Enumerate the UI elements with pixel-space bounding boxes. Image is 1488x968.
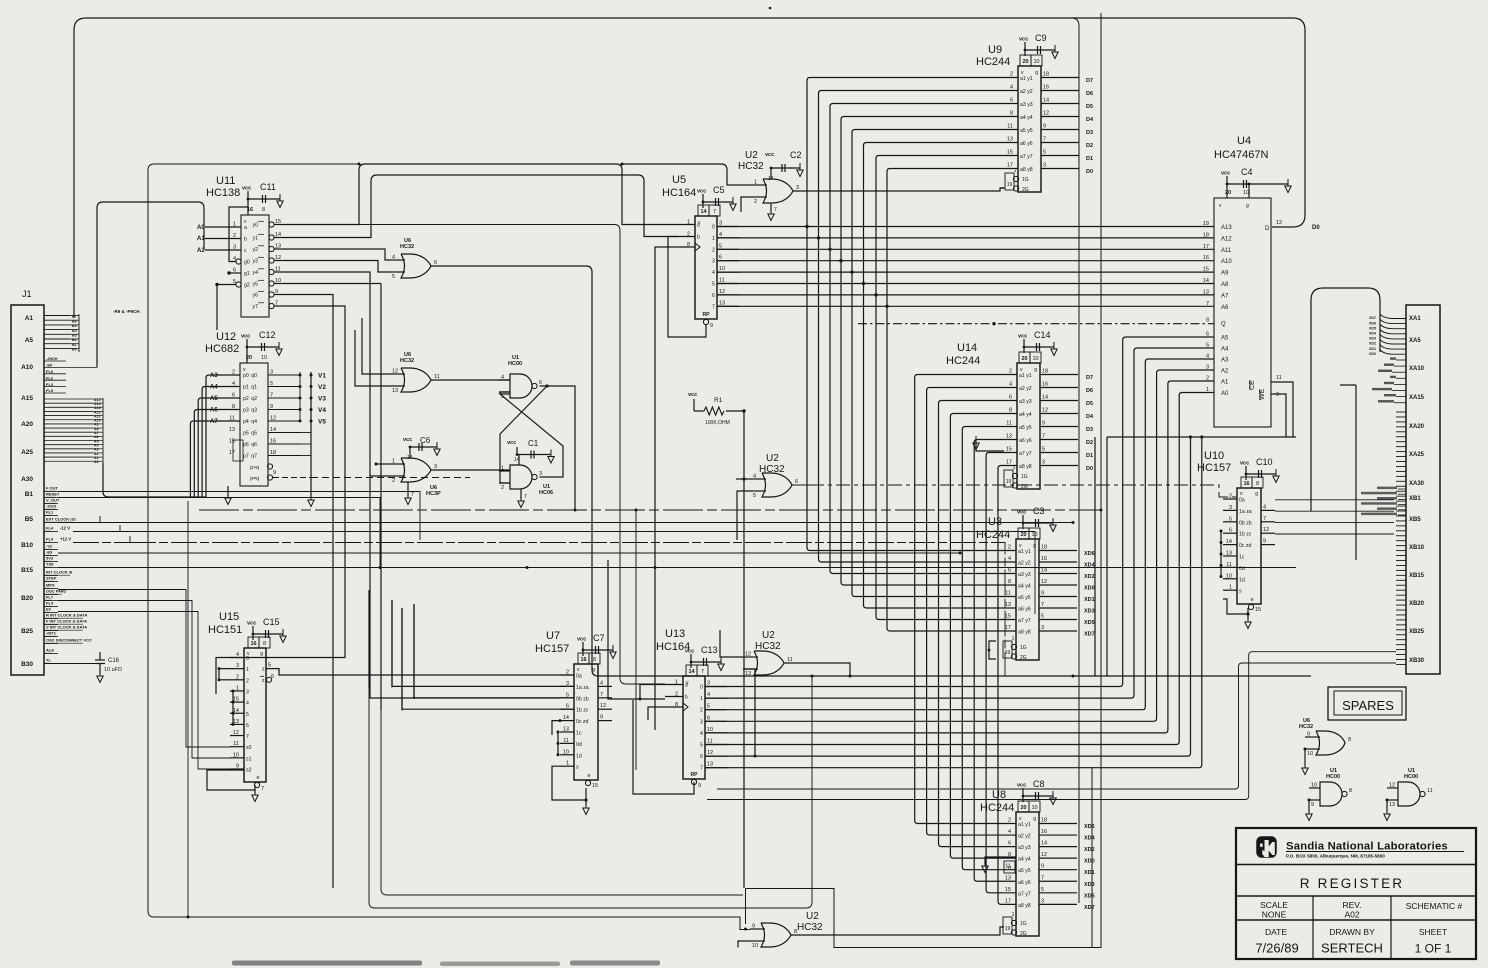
svg-text:A5: A5: [210, 396, 218, 402]
svg-text:12: 12: [600, 703, 606, 709]
wire long vertical bus x=1101: [746, 13, 1102, 948]
wire U2A output to U9 enable: [793, 188, 1004, 191]
svg-text:1: 1: [700, 696, 703, 702]
svg-text:a6 y6: a6 y6: [1018, 607, 1031, 613]
wire bus row 510: [199, 509, 1103, 512]
svg-text:XD1: XD1: [1369, 347, 1376, 351]
svg-text:A4: A4: [1221, 347, 1229, 353]
svg-text:A10: A10: [1221, 259, 1232, 265]
svg-text:12: 12: [1041, 579, 1047, 585]
wire XA small signal stubs: [1372, 357, 1406, 402]
svg-text:8: 8: [263, 641, 266, 647]
svg-text:1c: 1c: [576, 731, 582, 737]
IC U13 HC164 with capacitor C13: [656, 628, 727, 789]
svg-text:A7: A7: [210, 419, 218, 425]
svg-text:13: 13: [1389, 802, 1395, 808]
svg-text:A6: A6: [1221, 305, 1229, 311]
svg-text:a7 y7: a7 y7: [1018, 891, 1031, 897]
svg-text:16: 16: [1042, 382, 1048, 388]
wire left rail x=148 to bottom: [148, 164, 750, 930]
svg-text:HC244: HC244: [980, 802, 1014, 814]
svg-text:g: g: [1246, 203, 1249, 209]
svg-text:HC244: HC244: [976, 56, 1010, 68]
wire XA data fan XD7-XD0: [1369, 314, 1406, 356]
wire vertical x=1092: [1091, 768, 1093, 948]
wire connector pin ladder: [1396, 412, 1406, 664]
svg-text:10: 10: [1243, 190, 1249, 196]
svg-text:V5: V5: [318, 419, 326, 426]
svg-text:U3: U3: [988, 516, 1002, 528]
svg-text:D7: D7: [1086, 78, 1093, 84]
svg-text:vcc: vcc: [403, 437, 412, 443]
svg-text:U5: U5: [672, 174, 686, 186]
svg-text:p=q: p=q: [250, 476, 259, 482]
svg-text:C4: C4: [1241, 167, 1253, 177]
svg-text:y0: y0: [253, 223, 259, 229]
svg-text:FL7: FL7: [46, 595, 54, 600]
svg-text:10: 10: [707, 727, 713, 733]
label U3 outputs XD: [1084, 551, 1096, 638]
wire U2D output to U8 enable: [791, 927, 1004, 935]
svg-text:12: 12: [1389, 783, 1395, 789]
svg-text:XD1: XD1: [1084, 870, 1095, 876]
svg-text:13: 13: [1005, 602, 1011, 608]
svg-text:4: 4: [1008, 556, 1011, 562]
svg-text:U13: U13: [665, 628, 685, 640]
wire bus +12V row: [73, 536, 1005, 676]
svg-text:SHEET: SHEET: [1419, 927, 1447, 937]
svg-text:HC06: HC06: [539, 490, 553, 496]
OR gate U6 HC3P (third): [390, 446, 441, 497]
svg-text:U9: U9: [988, 44, 1002, 56]
svg-text:a5 y5: a5 y5: [1019, 425, 1032, 431]
svg-text:6: 6: [1008, 568, 1011, 574]
svg-text:vcc: vcc: [1240, 461, 1249, 467]
svg-text:XD7: XD7: [1084, 905, 1095, 911]
svg-text:6: 6: [700, 754, 703, 760]
svg-text:2: 2: [1010, 72, 1013, 78]
svg-text:y1: y1: [253, 236, 259, 242]
wire right vertical pair: [1095, 437, 1107, 676]
svg-text:vcc: vcc: [247, 621, 256, 627]
wire XB small signal stubs: [1361, 487, 1406, 515]
wire U10 outputs to connector: [1275, 500, 1394, 534]
svg-text:5: 5: [712, 282, 715, 288]
svg-text:1G: 1G: [1020, 921, 1027, 927]
wire long vertical bus x=1079: [1073, 18, 1079, 903]
svg-text:U15: U15: [219, 611, 239, 623]
svg-text:HC244: HC244: [946, 355, 980, 367]
svg-text:17: 17: [229, 450, 235, 456]
capacitor C1: [507, 439, 554, 465]
svg-text:9: 9: [698, 783, 701, 789]
svg-text:FL0: FL0: [46, 369, 54, 374]
svg-text:19: 19: [1007, 182, 1013, 188]
svg-text:a8 y8: a8 y8: [1020, 167, 1033, 173]
svg-text:XD1: XD1: [1084, 597, 1095, 603]
wire U11 y4 vertical: [283, 272, 560, 698]
svg-text:s: s: [576, 765, 579, 771]
svg-text:18: 18: [1041, 545, 1047, 551]
NAND U1 HC00 (upper): [499, 355, 542, 400]
svg-text:4: 4: [392, 255, 395, 261]
svg-text:HC00: HC00: [1326, 774, 1340, 780]
svg-text:FL5: FL5: [46, 388, 54, 393]
svg-text:A10: A10: [21, 364, 33, 371]
svg-text:C13: C13: [701, 645, 718, 655]
svg-text:D0: D0: [1086, 466, 1093, 472]
svg-text:D3: D3: [1086, 130, 1093, 136]
svg-text:a6 y6: a6 y6: [1020, 141, 1033, 147]
svg-text:2: 2: [246, 678, 249, 684]
wire U11 y5 vertical: [283, 283, 381, 285]
wire bus row 553: [58, 552, 962, 555]
svg-text:a: a: [244, 225, 247, 231]
wire J1 B-section signal stubs: [44, 486, 92, 664]
svg-text:3: 3: [712, 259, 715, 265]
svg-text:15: 15: [1005, 614, 1011, 620]
svg-text:9: 9: [1041, 864, 1044, 870]
svg-text:STEP: STEP: [46, 576, 57, 581]
svg-text:a6 y6: a6 y6: [1019, 438, 1032, 444]
wire U5 pin1 from U11 y0: [283, 163, 677, 225]
svg-text:C11: C11: [260, 182, 276, 192]
wire A riser foot: [66, 366, 97, 368]
IC U5 HC164 with capacitor C5: [662, 174, 739, 329]
title fields row 1: [1260, 900, 1462, 920]
svg-text:a2 y2: a2 y2: [1018, 561, 1031, 567]
svg-text:15: 15: [229, 439, 235, 445]
svg-text:D: D: [1265, 226, 1270, 232]
wire U11 y0 branch down to U13: [359, 225, 665, 685]
svg-text:EXT CLOCK /32: EXT CLOCK /32: [46, 517, 77, 522]
svg-text:6: 6: [1008, 841, 1011, 847]
capacitor C16: [44, 652, 122, 683]
svg-text:g: g: [1035, 70, 1038, 76]
svg-text:XD7: XD7: [1084, 632, 1095, 638]
svg-text:4: 4: [707, 692, 710, 698]
svg-text:XD6: XD6: [1084, 551, 1095, 557]
svg-text:HC32: HC32: [1299, 724, 1313, 730]
svg-text:XB30: XB30: [1409, 658, 1425, 664]
svg-text:13: 13: [1007, 137, 1013, 143]
svg-text:13: 13: [229, 427, 235, 433]
svg-text:10: 10: [1033, 59, 1039, 65]
svg-text:MPX: MPX: [46, 583, 55, 588]
wire U1 lower gnd: [518, 489, 527, 508]
svg-text:3: 3: [1041, 625, 1044, 631]
svg-text:9: 9: [752, 924, 755, 930]
svg-text:XD2: XD2: [1369, 342, 1376, 346]
svg-text:4: 4: [712, 270, 715, 276]
svg-text:B1: B1: [25, 491, 34, 498]
svg-text:vcc: vcc: [765, 152, 774, 158]
svg-text:F INT CLOCK & DATA: F INT CLOCK & DATA: [46, 619, 87, 624]
wire mid vertical x=636: [635, 509, 638, 771]
svg-text:8: 8: [1009, 408, 1012, 414]
svg-text:9: 9: [1043, 124, 1046, 130]
svg-text:D5: D5: [1086, 401, 1093, 407]
svg-text:C8: C8: [1033, 779, 1045, 789]
wire Q bus dash: [858, 323, 1214, 325]
svg-text:FL3: FL3: [46, 382, 54, 387]
wire U1 cross coupling: [500, 386, 563, 483]
svg-text:9: 9: [1041, 591, 1044, 597]
svg-text:7: 7: [701, 669, 704, 675]
svg-text:2: 2: [1009, 369, 1012, 375]
svg-text:B15: B15: [21, 567, 33, 574]
svg-text:XD2: XD2: [1084, 574, 1095, 580]
svg-text:XD3: XD3: [1084, 609, 1095, 615]
svg-text:14: 14: [700, 209, 707, 215]
svg-text:FL4: FL4: [46, 537, 54, 542]
svg-text:HC682: HC682: [205, 343, 239, 355]
svg-text:XB15: XB15: [1409, 573, 1425, 579]
wire U7 select group: [552, 719, 562, 756]
svg-text:vcc: vcc: [1221, 171, 1230, 177]
svg-text:8: 8: [1008, 579, 1011, 585]
svg-text:XD0: XD0: [1084, 859, 1095, 865]
svg-text:XD4: XD4: [1369, 332, 1376, 336]
svg-text:7: 7: [1041, 875, 1044, 881]
svg-text:16: 16: [250, 641, 256, 647]
connector J1: [11, 289, 44, 675]
svg-text:C16: C16: [108, 658, 120, 664]
svg-text:s: s: [1239, 589, 1242, 595]
svg-text:7: 7: [524, 494, 527, 500]
svg-text:D2: D2: [1086, 440, 1093, 446]
wire U11 input taps A0 A1 A2: [197, 225, 241, 254]
wire U7 strobe ground: [552, 766, 589, 814]
label U9 outputs D7-D0: [1086, 78, 1094, 175]
svg-text:C15: C15: [263, 617, 280, 627]
svg-text:NONE: NONE: [1262, 910, 1287, 920]
svg-text:XD4: XD4: [1084, 836, 1096, 842]
svg-text:e: e: [256, 775, 259, 781]
svg-text:12: 12: [1041, 852, 1047, 858]
svg-text:7: 7: [700, 766, 703, 772]
svg-text:XD7: XD7: [1369, 316, 1376, 320]
svg-text:HC138: HC138: [206, 187, 240, 199]
wire ladder riser: [1340, 385, 1356, 560]
wire U14 enable gnd stub: [973, 436, 1004, 451]
svg-text:REV.: REV.: [1342, 900, 1361, 910]
svg-text:4: 4: [753, 474, 756, 480]
svg-text:A9: A9: [1221, 271, 1229, 277]
svg-text:13: 13: [1005, 875, 1011, 881]
svg-text:5: 5: [707, 704, 710, 710]
wire U7 inputs from mid verticals: [392, 600, 574, 709]
svg-text:12: 12: [392, 369, 398, 375]
svg-text:-EF: -EF: [46, 363, 53, 368]
wire U4 pin 11: [1271, 382, 1293, 437]
SPARES box: [1328, 687, 1406, 720]
svg-text:4: 4: [1263, 504, 1266, 510]
svg-text:4: 4: [501, 375, 504, 381]
svg-text:5: 5: [1042, 447, 1045, 453]
wire U8 pin8 gnd jog: [982, 857, 1016, 873]
svg-text:A1: A1: [25, 315, 34, 322]
svg-text:HC32: HC32: [738, 161, 764, 172]
svg-text:B10: B10: [21, 542, 33, 549]
svg-text:g: g: [260, 651, 263, 657]
svg-text:g: g: [1034, 367, 1037, 373]
svg-text:OSC DISCONNECT VCC: OSC DISCONNECT VCC: [46, 638, 92, 643]
svg-text:D4: D4: [1086, 414, 1094, 420]
svg-text:19: 19: [1006, 479, 1012, 485]
svg-text:XD5: XD5: [1084, 620, 1095, 626]
wire lower right risers to ladder: [707, 652, 1396, 800]
svg-text:TL: TL: [46, 658, 51, 663]
svg-text:XB20: XB20: [1409, 601, 1425, 607]
svg-text:V_OUT: V_OUT: [46, 498, 60, 503]
svg-text:A5: A5: [25, 337, 34, 344]
svg-text:XD3: XD3: [1084, 882, 1095, 888]
svg-text:8: 8: [1256, 481, 1259, 487]
svg-text:2: 2: [700, 708, 703, 714]
svg-text:R INT CLOCK & DATA: R INT CLOCK & DATA: [46, 613, 88, 618]
svg-text:s1: s1: [246, 756, 252, 762]
svg-text:7: 7: [713, 209, 716, 215]
wire U13 inputs: [608, 560, 665, 720]
svg-text:14: 14: [1042, 395, 1048, 401]
svg-text:-12 V: -12 V: [60, 526, 70, 531]
svg-text:3: 3: [1043, 163, 1046, 169]
svg-text:E0: E0: [46, 607, 52, 612]
svg-text:s0: s0: [246, 745, 252, 751]
svg-text:0: 0: [712, 225, 715, 231]
svg-text:7: 7: [1041, 602, 1044, 608]
Sandia logo: [1257, 837, 1276, 857]
svg-text:0b zb: 0b zb: [1239, 520, 1252, 526]
svg-text:3: 3: [539, 471, 542, 477]
svg-text:a4 y4: a4 y4: [1019, 412, 1032, 418]
svg-text:7: 7: [1263, 516, 1266, 522]
OR gate U2 HC32 (middle): [751, 453, 798, 499]
svg-text:SCHEMATIC #: SCHEMATIC #: [1406, 901, 1463, 911]
svg-text:13: 13: [275, 244, 281, 250]
svg-text:6: 6: [539, 380, 542, 386]
svg-text:9: 9: [1307, 732, 1310, 738]
svg-text:A02: A02: [1344, 910, 1359, 920]
svg-text:A25: A25: [21, 449, 33, 456]
wire U5 clock pin8: [654, 247, 678, 730]
wire U12 input taps A3-A7: [103, 373, 240, 497]
svg-text:a: a: [685, 683, 688, 689]
svg-text:19: 19: [1005, 650, 1011, 656]
svg-text:1b zc: 1b zc: [1239, 532, 1252, 538]
svg-text:s2: s2: [246, 768, 252, 774]
wire U5 reset loop pin9: [668, 237, 706, 338]
IC U7 HC157 with capacitor C7: [535, 630, 616, 789]
svg-text:F OUT: F OUT: [46, 486, 59, 491]
svg-text:1d: 1d: [576, 753, 582, 759]
wire U6 output down to lower bus: [431, 266, 1311, 678]
svg-text:y7: y7: [253, 304, 259, 310]
svg-text:100K,OHM: 100K,OHM: [705, 420, 730, 426]
svg-text:XD0: XD0: [1084, 586, 1095, 592]
svg-text:14: 14: [1041, 568, 1047, 574]
svg-text:1: 1: [712, 236, 715, 242]
wire U1 upper output to dash bus: [540, 384, 577, 511]
IC U11 HC138 with capacitor C11: [206, 175, 283, 317]
svg-text:6: 6: [1010, 98, 1013, 104]
svg-text:12: 12: [719, 289, 725, 295]
svg-text:13: 13: [707, 762, 713, 768]
svg-text:R REGISTER: R REGISTER: [1300, 876, 1405, 891]
svg-text:20: 20: [1225, 190, 1231, 196]
wire U3 enable loop: [988, 641, 996, 659]
svg-text:7: 7: [712, 304, 715, 310]
svg-text:4: 4: [719, 232, 722, 238]
svg-text:SERTECH: SERTECH: [1321, 941, 1383, 956]
wire U13 reset: [633, 700, 694, 794]
svg-text:0b zb: 0b zb: [576, 696, 589, 702]
svg-text:p2: p2: [243, 396, 249, 402]
svg-text:15: 15: [1005, 887, 1011, 893]
svg-text:C2: C2: [790, 150, 802, 160]
svg-text:p5: p5: [243, 431, 249, 437]
svg-text:11: 11: [1007, 866, 1012, 872]
wire U2A input 2: [741, 197, 752, 212]
wire J1 data stubs B7-B0: [44, 314, 79, 352]
svg-text:8: 8: [262, 207, 265, 213]
svg-text:b: b: [697, 235, 700, 241]
wire bus row 590: [58, 590, 230, 748]
svg-text:5: 5: [246, 712, 249, 718]
svg-text:vcc: vcc: [577, 637, 586, 643]
svg-text:C5: C5: [713, 185, 725, 195]
svg-text:XD2: XD2: [1084, 847, 1095, 853]
OR gate U2 HC32 (lower): [743, 630, 793, 677]
svg-text:XD5: XD5: [1369, 326, 1376, 330]
svg-text:10 uFD: 10 uFD: [104, 667, 122, 673]
svg-text:RP: RP: [691, 772, 699, 778]
svg-text:3: 3: [700, 719, 703, 725]
svg-text:2: 2: [712, 247, 715, 253]
svg-text:Q: Q: [1221, 322, 1226, 328]
svg-text:11: 11: [707, 739, 713, 745]
wire A-bus riser to U11/U12: [97, 202, 204, 367]
svg-text:q4: q4: [251, 419, 257, 425]
svg-text:0a: 0a: [1239, 498, 1245, 504]
svg-text:10: 10: [719, 266, 725, 272]
svg-text:XA15: XA15: [1409, 395, 1425, 401]
svg-text:XB1: XB1: [1409, 496, 1421, 502]
wire U12 p=q dashed output: [273, 477, 470, 479]
svg-text:p4: p4: [243, 419, 249, 425]
svg-text:ALE: ALE: [46, 648, 54, 653]
svg-text:a1 y1: a1 y1: [1020, 76, 1033, 82]
svg-text:6: 6: [795, 479, 798, 485]
svg-text:14: 14: [275, 232, 281, 238]
svg-text:12: 12: [1263, 527, 1269, 533]
svg-text:5: 5: [1043, 150, 1046, 156]
svg-text:vcc: vcc: [507, 440, 516, 446]
svg-text:FL1: FL1: [46, 510, 54, 515]
wire F OUT row: [58, 492, 420, 541]
svg-text:16: 16: [1243, 481, 1249, 487]
svg-text:a4 y4: a4 y4: [1020, 115, 1033, 121]
capacitor C6: [403, 436, 440, 456]
svg-text:16: 16: [580, 657, 586, 663]
svg-text:vcc: vcc: [1018, 334, 1027, 340]
wire bus row 612: [58, 612, 230, 770]
wire U12 compare bus V1-V5: [299, 372, 327, 507]
svg-text:5: 5: [753, 493, 756, 499]
svg-text:A5: A5: [1221, 336, 1229, 342]
wire U11 y7 to U15: [230, 306, 345, 658]
